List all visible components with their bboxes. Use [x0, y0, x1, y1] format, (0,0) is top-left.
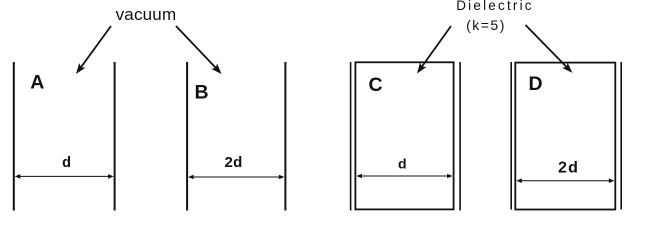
svg-text:vacuum: vacuum: [116, 5, 177, 24]
svg-text:C: C: [368, 74, 382, 96]
dimension arrow d capacitor A: [15, 174, 114, 179]
arrow vacuum to capacitor A gap: [76, 26, 111, 74]
svg-text:d: d: [398, 156, 407, 172]
capacitor A left plate: [13, 62, 15, 211]
svg-text:A: A: [30, 72, 44, 94]
arrow vacuum to capacitor B gap: [176, 26, 222, 74]
svg-text:2d: 2d: [558, 160, 579, 177]
capacitor C right plate: [459, 62, 461, 211]
svg-text:D: D: [528, 73, 542, 95]
svg-text:2d: 2d: [224, 154, 242, 171]
arrow Dielectric to capacitor C slab: [417, 26, 451, 74]
svg-text:Dielectric: Dielectric: [456, 0, 534, 13]
capacitor C left plate: [350, 62, 352, 211]
svg-text:B: B: [194, 81, 208, 103]
dimension arrow 2d capacitor D: [516, 178, 614, 183]
capacitor D right plate: [620, 62, 622, 210]
capacitor C dielectric slab: [355, 62, 453, 209]
capacitor A right plate: [114, 62, 116, 211]
capacitor B left plate: [186, 62, 188, 211]
capacitor B right plate: [284, 62, 286, 211]
capacitor D dielectric slab: [515, 63, 615, 210]
svg-text:d: d: [62, 155, 71, 171]
svg-text:(k=5): (k=5): [466, 17, 506, 33]
dimension arrow d capacitor C: [356, 174, 452, 179]
arrow Dielectric to capacitor D slab: [526, 25, 573, 73]
capacitor D left plate: [510, 62, 512, 210]
dimension arrow 2d capacitor B: [188, 175, 284, 180]
